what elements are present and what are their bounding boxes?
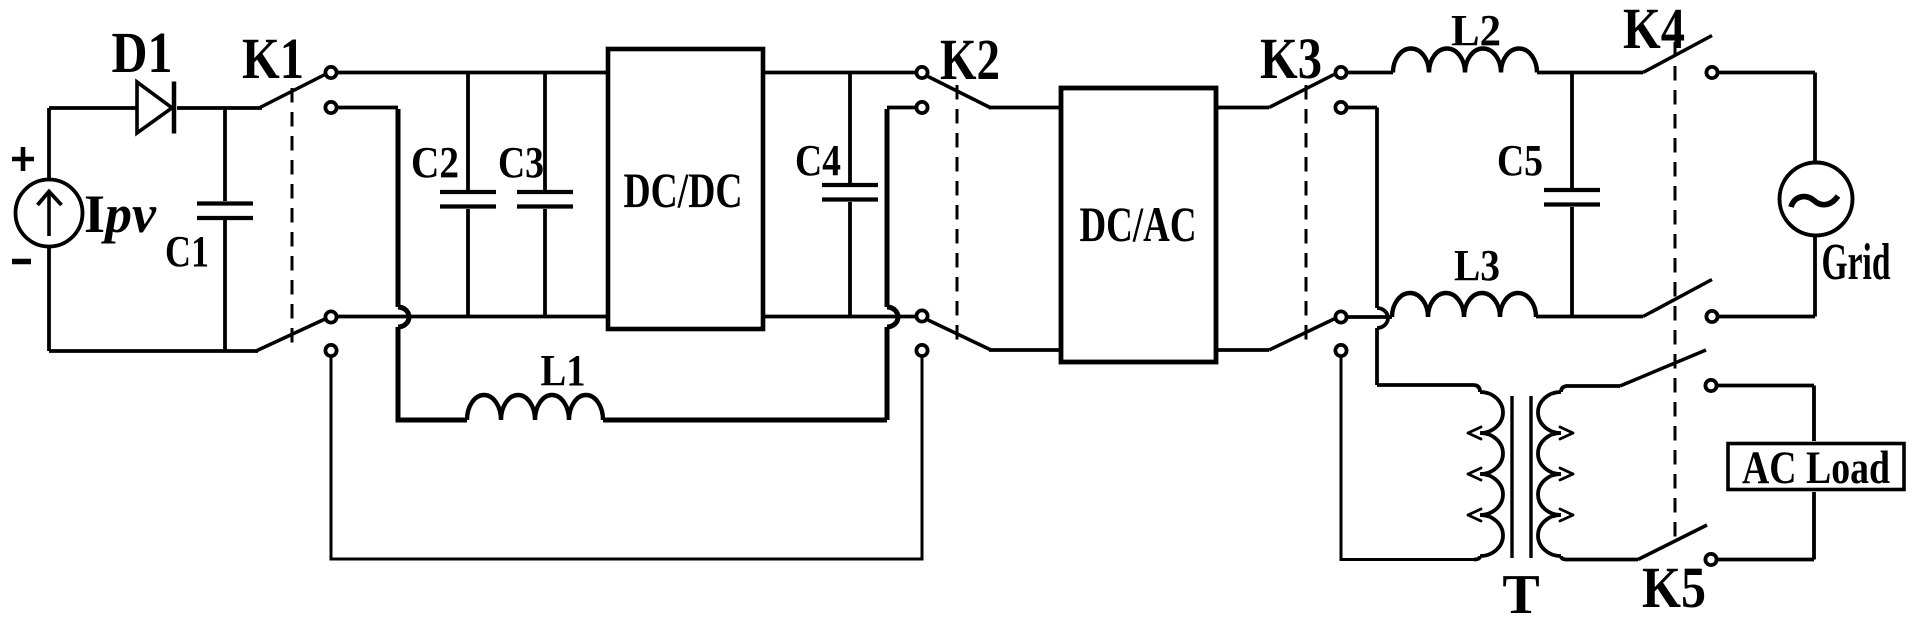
transformer T secondary (1538, 386, 1567, 560)
capacitor C3 (517, 74, 573, 315)
wire top rail right of DC/DC (763, 71, 916, 75)
switch K3 (1269, 67, 1347, 356)
wire K3 to L2 (1347, 71, 1393, 75)
inductor L3 (1392, 293, 1536, 317)
wire K2 to DC/AC top (989, 106, 1062, 110)
wire long bottom bus (331, 357, 922, 559)
grid tilde (1791, 196, 1838, 207)
capacitor C4 (822, 74, 878, 315)
svg-text:K2: K2 (940, 27, 1000, 92)
wire K2 to DC/AC bottom (989, 348, 1062, 352)
capacitor C5 (1544, 74, 1600, 315)
svg-text:C1: C1 (165, 227, 209, 276)
wire K3 lower second throw to transformer bottom (1341, 357, 1474, 560)
inductor L1 bypass loop left vertical (398, 109, 467, 420)
inverter box DC/AC (1061, 88, 1216, 362)
inductor L1 coil (467, 395, 603, 420)
switch K1 (256, 67, 337, 356)
switch K5 (1566, 350, 1814, 565)
svg-text:D1: D1 (112, 20, 173, 85)
switch K4 (1643, 36, 1718, 323)
diode D1 (137, 82, 174, 134)
svg-text:C4: C4 (795, 136, 841, 185)
dashed link K4 K5 (1674, 42, 1677, 546)
converter box DC/DC (608, 49, 763, 329)
wire K3 to L3 (1347, 315, 1392, 319)
svg-text:L2: L2 (1451, 6, 1501, 55)
svg-text:C3: C3 (498, 138, 544, 187)
current source Ipv (16, 180, 83, 247)
wire K4 to Grid top (1718, 73, 1815, 165)
svg-text:C2: C2 (411, 138, 459, 187)
svg-text:L1: L1 (541, 346, 586, 395)
transformer winding cusp ticks (1468, 427, 1573, 521)
svg-text:L3: L3 (1454, 241, 1500, 290)
wire left vertical top (47, 108, 51, 180)
wire bottom left (49, 349, 258, 353)
inductor L2 (1393, 49, 1537, 73)
wire K3 second throw down to transformer (1347, 108, 1474, 386)
wire Grid bottom to K4 (1718, 235, 1815, 317)
wire L2 to K4 (1537, 71, 1643, 75)
wire bottom rail left (337, 315, 609, 319)
svg-text:Grid: Grid (1822, 234, 1891, 291)
svg-text:Ipv: Ipv (84, 184, 157, 244)
wire top rail left (337, 71, 609, 75)
wire L1 loop to K2 terminal (887, 106, 916, 110)
transformer T primary (1474, 385, 1503, 560)
wire bottom rail right of DC/DC (763, 315, 916, 319)
wire top to diode (49, 106, 137, 110)
svg-text:AC Load: AC Load (1742, 442, 1890, 494)
svg-text:DC/AC: DC/AC (1080, 196, 1197, 252)
svg-text:DC/DC: DC/DC (624, 162, 743, 218)
wire diode to C1 and K1 (177, 106, 262, 110)
svg-text:K1: K1 (242, 26, 304, 91)
wire DC/AC to K3 bottom (1216, 348, 1269, 352)
svg-text:T: T (1502, 564, 1539, 622)
wire DC/AC to K3 top (1216, 106, 1269, 110)
wire left vertical bottom (47, 246, 51, 351)
svg-text:C5: C5 (1497, 136, 1543, 185)
wire second rail from K1 (337, 106, 398, 110)
capacitor C1 (197, 108, 253, 351)
svg-text:K5: K5 (1642, 555, 1706, 620)
switch K2 (916, 67, 991, 356)
transformer core (1512, 396, 1531, 558)
plus terminal (12, 147, 34, 171)
minus terminal (12, 259, 31, 265)
wire L3 to K4 bottom (1536, 315, 1643, 319)
AC Load box (1728, 444, 1904, 490)
svg-text:K3: K3 (1260, 26, 1322, 91)
capacitor C2 (440, 74, 496, 315)
inductor L1 loop right side (603, 109, 898, 420)
AC source Grid (1780, 163, 1853, 236)
